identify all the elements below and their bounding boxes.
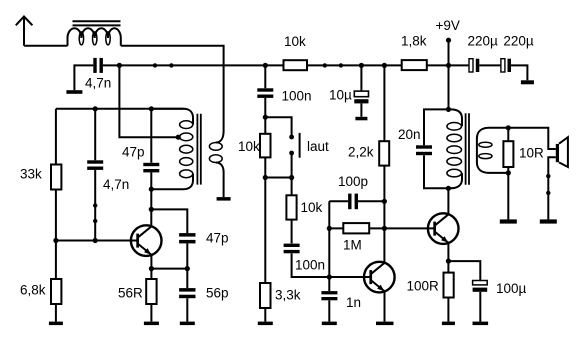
ground (Q2 emitter) [376,322,394,326]
capacitor 56p [179,286,228,301]
svg-text:100µ: 100µ [496,281,527,296]
svg-text:100n: 100n [295,258,325,273]
wire: mid column x265 [264,65,266,321]
resistor 10R [503,141,544,167]
resistor 2,2k [348,141,389,165]
node: rail/2,2k junction [382,63,387,68]
resistor 33k [20,165,61,190]
svg-text:1,8k: 1,8k [401,34,427,49]
wire: tap coupling [119,65,178,137]
resistor 1M [343,223,369,252]
potentiometer 10k track [238,134,271,158]
capacitor 100n (AF coupling) [284,244,325,273]
wire: main horizontal rail y65 [103,65,528,80]
node: Q2 base junction [327,274,332,279]
transformer T2 core [466,113,469,185]
wire: 1M row [329,227,434,229]
resistor 100R [407,273,454,298]
wire: secondary rail y108.8 [56,108,184,110]
resistor 10k (wiper series) [286,195,322,219]
ground (10R) [500,219,517,223]
wire: 4,7n column x95 [94,109,96,241]
node: base junction [93,238,98,243]
transistor Q3 [428,213,459,244]
transformer T2 secondary winding [477,128,508,173]
ground (100R) [442,322,455,326]
node: T2 top junction [446,107,451,112]
capacitor 10µ electrolytic [329,88,369,104]
node: junction rail/tap [117,63,122,68]
node: tap on T1 [176,135,181,140]
capacitor 1n [321,291,361,310]
svg-text:6,8k: 6,8k [20,283,46,298]
ground (speaker) [540,219,557,223]
capacitor 47p (tank) [122,145,159,173]
node: rail2/47p junction [149,106,154,111]
svg-text:20n: 20n [398,127,421,142]
transformer T2 primary winding [447,109,462,188]
wire: Q3 collector link [447,188,449,214]
resistor 1,8k [401,34,427,70]
wire: tank column x151 [150,109,152,227]
transformer T1 primary winding [151,109,193,189]
resistor 10k (top, horizontal) [284,34,308,70]
svg-text:56R: 56R [118,286,143,301]
wire: wiper column x291 [292,153,330,277]
wire: 10µ branch [360,65,362,116]
transformer T1 core [197,114,200,185]
supply +9V [436,18,460,43]
potentiometer wiper contacts laut [289,133,329,158]
node: connector pair x95 [93,203,97,223]
svg-text:4,7n: 4,7n [103,177,129,192]
inductor L1 antenna coil with core [68,21,121,46]
ground (56p) [180,322,195,326]
node: speaker connector pair [546,174,550,195]
capacitor 100p [338,174,368,209]
svg-text:47p: 47p [122,145,145,160]
wire: pot bottom link [265,177,291,179]
svg-text:100n: 100n [282,88,312,103]
ground (antenna cap) [66,90,82,94]
speaker [556,137,568,167]
capacitor 20n [398,127,432,155]
resistor 56R [118,279,157,304]
svg-text:10R: 10R [519,146,544,161]
node: emitter junction [149,266,154,271]
wire: pot top branch [265,117,291,137]
node: T2 bottom junction [446,186,451,191]
ground (220µ) [521,80,534,84]
capacitor 220µ electrolytic (second) [501,34,534,72]
capacitor 100n (detector coupling) [257,88,311,103]
node: pot top junction [263,115,268,120]
node: 100p right junction [382,199,387,204]
svg-text:laut: laut [307,139,329,154]
svg-text:4,7n: 4,7n [85,76,111,91]
node: 10µ rail junction [359,63,364,68]
svg-text:10k: 10k [301,200,323,215]
capacitor 100µ electrolytic [473,281,527,297]
wire: Q2 base and emitter [329,277,384,322]
svg-text:10k: 10k [284,34,306,49]
transformer T1 feedback winding [209,131,223,197]
svg-text:33k: 33k [20,166,42,181]
node: rail/100n junction [263,63,268,68]
wire: 100p row [329,200,384,202]
svg-text:47p: 47p [206,231,229,246]
wire: 10R column [507,128,509,220]
node: 1M right junction [382,226,387,231]
wire: 20n branch [424,109,448,188]
ground (1n) [322,322,337,326]
resistor 3,3k [260,283,301,308]
node: 10R top junction [506,125,511,130]
svg-text:1M: 1M [343,238,362,253]
node: collector/47p2 junction [149,207,154,212]
node: pot bottom junctions [263,175,295,180]
ground (T1 feedback winding) [217,197,231,201]
ground (10µ) [355,117,367,121]
wire: Q3 emitter network [448,243,480,322]
node: rail2/4,7n junction [93,106,98,111]
wire: 47p2 branch [151,209,187,268]
node: rail/+9V junction [446,63,451,68]
svg-text:56p: 56p [206,286,229,301]
wire: +9V column [448,40,450,109]
capacitor 220µ electrolytic (first) [468,34,499,72]
transistor Q2 [364,262,395,293]
wire: Q2 collector column x384 [383,65,385,262]
node: Q3 emitter junction [446,259,451,264]
capacitor 4,7n (antenna coupling) [85,58,111,91]
svg-text:100p: 100p [338,174,368,189]
node: divider/base junction [53,238,58,243]
wire: coil to feedback winding drop [121,46,224,131]
ground (6,8k) [49,322,63,326]
node: tank bottom / collector junction [149,187,154,192]
svg-text:10µ: 10µ [329,88,352,103]
svg-text:3,3k: 3,3k [275,288,301,303]
node: connector pair on rail right [323,63,344,67]
wire: speaker to ground [548,157,556,219]
wire: speaker top feed [508,128,556,149]
antenna [16,17,68,46]
transistor Q1 [131,225,162,256]
svg-text:100R: 100R [407,279,440,294]
node: 47p2/56p junction [185,266,190,271]
wire: left column (33k / 6,8k divider) [55,109,57,322]
ground (56R) [144,322,159,326]
wire: Q1 emitter network [151,255,187,322]
capacitor 47p (feedback) [179,231,228,246]
svg-text:220µ: 220µ [468,34,499,49]
node: 10R bottom junction [506,170,511,175]
wire: Q2 base column x329 [328,201,330,321]
capacitor 4,7n (base coupling) [87,160,129,192]
ground (3,3k) [258,322,273,326]
node: connector pair on rail left [153,63,174,67]
svg-text:+9V: +9V [436,18,460,33]
resistor 6,8k [20,279,61,304]
svg-text:1n: 1n [346,295,361,310]
node: 1M left junction [327,226,332,231]
ground (100µ) [473,322,489,326]
svg-text:220µ: 220µ [503,34,534,49]
svg-text:10k: 10k [238,139,260,154]
wire: 4,7n to ground [74,65,93,90]
svg-text:2,2k: 2,2k [348,145,374,160]
wire: Q1 base wire [56,240,138,242]
